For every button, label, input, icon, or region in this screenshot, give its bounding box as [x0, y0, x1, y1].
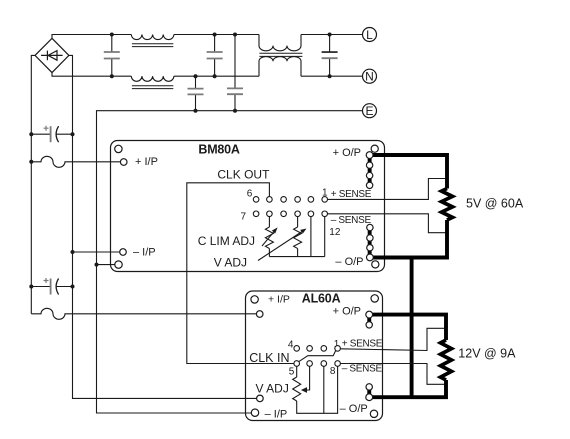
capacitor C5 bulk electrolytic (+ polarized) [31, 278, 72, 295]
AL60A corner hole top-right [371, 295, 378, 302]
svg-text:– SENSE: – SENSE [331, 215, 372, 226]
AL60A -O/P pin chain [367, 387, 371, 397]
capacitor CY2 Y-cap L to earth [227, 35, 243, 111]
wire: CLK OUT net to AL60A CLK IN [187, 183, 294, 364]
svg-text:L: L [366, 28, 373, 42]
terminal L [363, 28, 377, 42]
BM80A +I/P pin [120, 159, 127, 166]
AL60A -I/P pin [257, 395, 264, 402]
terminal E [363, 104, 377, 118]
load resistor 12V [441, 340, 452, 380]
pin row circles BM80A (pins 1-12) [253, 197, 327, 217]
svg-text:V ADJ: V ADJ [214, 256, 247, 270]
bridge rectifier BR1 [35, 38, 69, 72]
svg-text:– O/P: – O/P [335, 256, 363, 268]
BM80A -O/P pin chain [368, 228, 372, 258]
AL60A case pin bottom-left (earthed) [251, 409, 258, 416]
svg-text:8: 8 [330, 366, 336, 377]
terminal N [363, 69, 377, 83]
svg-text:12: 12 [329, 227, 341, 238]
wire: bridge bottom vertex to N line [52, 73, 131, 77]
wire: earth to BM80A case pin [97, 264, 115, 266]
choke L1 top core [132, 44, 173, 47]
svg-text:BM80A: BM80A [198, 143, 240, 157]
wire: N line to terminal [301, 75, 363, 77]
wire: DC- to BM80A -I/P [73, 251, 120, 253]
wire: pot bottom to -O/P strap [297, 366, 338, 413]
svg-text:5: 5 [289, 366, 295, 377]
thick bus: BM80A -O/P loop bottom [370, 220, 447, 258]
svg-text:CLK OUT: CLK OUT [217, 167, 270, 181]
svg-text:– SENSE: – SENSE [342, 364, 383, 375]
choke L2 bottom winding [259, 57, 301, 77]
wire: pin 7 strap [323, 366, 325, 413]
module U2 AL60A outline [246, 291, 383, 421]
svg-text:N: N [365, 70, 374, 84]
capacitor C3 X-cap at terminals [322, 35, 338, 77]
svg-text:+ O/P: + O/P [333, 306, 361, 318]
svg-text:7: 7 [241, 212, 247, 223]
svg-text:– I/P: – I/P [265, 408, 288, 420]
svg-text:V ADJ: V ADJ [256, 382, 289, 396]
svg-text:+ I/P: + I/P [135, 156, 158, 168]
BM80A -I/P pin [120, 249, 127, 256]
svg-text:– I/P: – I/P [133, 247, 156, 259]
svg-text:C LIM ADJ: C LIM ADJ [198, 234, 255, 248]
wire: -SENSE of AL60A to load tap [340, 364, 446, 385]
wire: pin 12 strap [324, 217, 326, 257]
svg-text:6: 6 [247, 189, 253, 200]
wire: -SENSE of BM80A to load tap [328, 214, 448, 233]
potentiometer V ADJ [297, 217, 299, 227]
choke L1 top winding [131, 35, 174, 40]
thick bus: AL60A +O/P loop top [370, 315, 446, 340]
wire: bridge top vertex to L line [52, 35, 131, 39]
svg-text:+ SENSE: + SENSE [331, 189, 372, 200]
wire: N line middle [174, 75, 259, 77]
BM80A corner hole top-left [115, 145, 122, 152]
wire: earth line from E terminal down left side [97, 111, 363, 413]
BM80A +O/P pin chain [368, 155, 372, 185]
AL60A corner hole top-left [251, 296, 258, 303]
svg-text:+ I/P: + I/P [268, 294, 290, 306]
capacitor C1 X-cap after bridge [104, 35, 120, 77]
module U1 BM80A outline [111, 141, 385, 272]
wire+arrow: pot wiper from pin 6 [305, 366, 310, 390]
capacitor C4 bulk electrolytic (+ polarized) [31, 126, 72, 143]
svg-text:CLK IN: CLK IN [249, 351, 289, 365]
AL60A +O/P pin chain [367, 315, 371, 325]
svg-text:4: 4 [288, 340, 294, 351]
BM80A case pin bottom-left (earthed) [115, 261, 122, 268]
BM80A corner hole top-right [371, 145, 378, 152]
wire: DC+ rail from bridge left vertex [31, 55, 35, 313]
wire: +SENSE of BM80A to load tap [328, 179, 448, 200]
potentiometer C LIM ADJ [268, 217, 270, 227]
svg-text:– O/P: – O/P [340, 403, 368, 415]
AL60A +I/P pin [256, 311, 263, 318]
svg-text:1: 1 [322, 188, 328, 199]
svg-text:+ O/P: + O/P [333, 147, 361, 159]
svg-text:AL60A: AL60A [302, 291, 341, 305]
wire: DC- rail from bridge right vertex to AL60A -I/P [69, 55, 257, 398]
pin row circles AL60A (pins 1-8) [294, 346, 341, 367]
choke L1 bottom core [132, 86, 173, 89]
wire: bottom strap of BM80A pots [269, 256, 324, 258]
wire: L line to terminal [301, 34, 363, 36]
thick bus: series link between loads [410, 258, 414, 398]
wire: pin 11 strap [310, 217, 312, 257]
wire: +SENSE of AL60A to load tap [340, 328, 446, 350]
arrow pointer of V ADJ [258, 230, 304, 261]
svg-text:5V @ 60A: 5V @ 60A [466, 196, 524, 210]
thick bus: AL60A -O/P loop bottom [370, 380, 446, 397]
AL60A corner hole bottom-right [370, 410, 377, 417]
BM80A corner hole bottom-right [372, 261, 379, 268]
choke L2 top winding [259, 35, 301, 51]
svg-text:E: E [365, 104, 373, 118]
fuse F1 to BM80A +I/P [31, 156, 120, 167]
thick bus: BM80A +O/P loop top [370, 155, 447, 189]
choke L1 bottom winding [131, 76, 174, 81]
potentiometer V ADJ (AL60A) [296, 366, 298, 377]
choke L2 core [259, 53, 302, 56]
arrow of C LIM ADJ pot [262, 230, 276, 246]
svg-text:12V @ 9A: 12V @ 9A [458, 347, 516, 361]
load resistor 5V [442, 189, 453, 221]
fuse F2 to AL60A +I/P [31, 308, 256, 319]
capacitor CY1 Y-cap N to earth [188, 76, 204, 111]
wire: L line middle [174, 34, 259, 36]
wire: jumper pin5 to pin1 [299, 351, 336, 362]
capacitor C2 X-cap [207, 35, 223, 77]
svg-text:+ SENSE: + SENSE [342, 339, 383, 350]
